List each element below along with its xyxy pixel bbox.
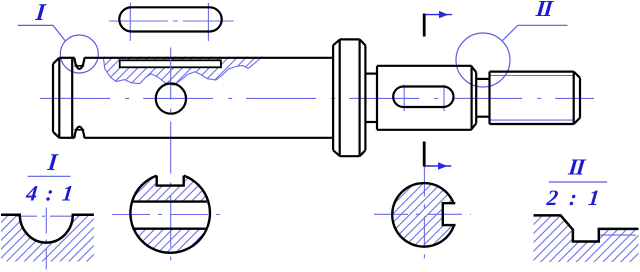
svg-text:2 : 1: 2 : 1 bbox=[545, 185, 604, 210]
svg-text:4 : 1: 4 : 1 bbox=[24, 180, 76, 205]
